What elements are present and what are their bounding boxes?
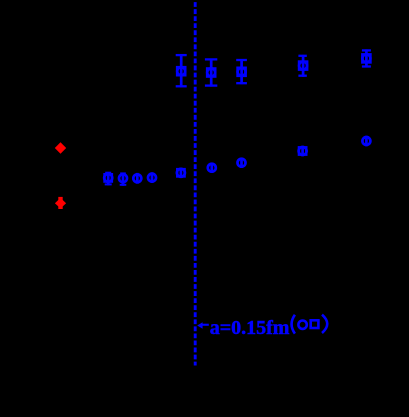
data point M9 (circle with bar)	[362, 136, 370, 146]
dashed vertical line a=0.15fm	[194, 2, 197, 365]
data point M3 (circle with bar)	[133, 173, 141, 184]
data point M8 (circle+square with bar)	[299, 146, 307, 156]
closing parenthesis	[322, 315, 327, 333]
data point M2 (circle, short error bar)	[119, 173, 127, 186]
legend square glyph	[311, 320, 319, 328]
opening parenthesis	[292, 315, 295, 334]
data point T1 (square+circle, error bar)	[176, 54, 187, 87]
red diamond D1 (continuum point)	[55, 142, 66, 154]
annotation arrow	[197, 322, 209, 329]
data point M1 (circle+square, short error bar)	[104, 172, 112, 186]
svg-text:a=0.15fm: a=0.15fm	[210, 317, 290, 339]
legend circle glyph	[298, 321, 306, 329]
data point T2 (square+circle, error bar)	[205, 59, 217, 87]
data point M6 (circle with bar)	[208, 163, 216, 173]
data point T3 (square+circle, error bar)	[236, 59, 247, 84]
data point T5 (square+circle, error bar)	[362, 49, 371, 67]
data point M7 (circle with bar)	[238, 158, 246, 168]
red diamond D2 (continuum point with error bar)	[55, 197, 66, 209]
data point M5 (circle+square with bar)	[177, 168, 185, 178]
data point T4 (square+circle, error bar)	[298, 55, 307, 77]
data point M4 (circle with bar)	[148, 172, 156, 183]
